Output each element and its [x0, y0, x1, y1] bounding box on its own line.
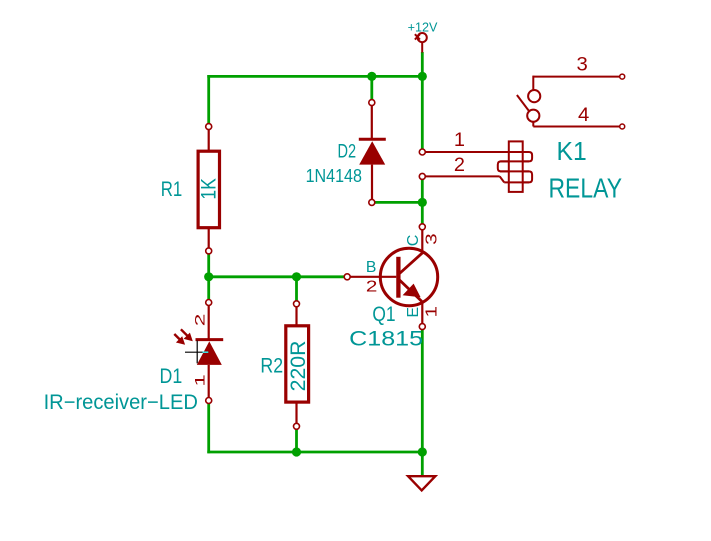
svg-text:1: 1: [454, 130, 465, 151]
svg-text:B: B: [366, 259, 377, 276]
junction bottom ground: [418, 447, 427, 456]
wire +12V vertical: [421, 52, 424, 149]
wire R2 top: [295, 277, 298, 301]
svg-text:1K: 1K: [197, 178, 220, 200]
pin end circle 3: [620, 74, 625, 79]
junction at +12V: [418, 72, 427, 81]
anchor cross: [185, 351, 208, 353]
wire mid horizontal base rail: [209, 275, 345, 278]
coil rail 2: [500, 160, 529, 162]
wire to ground: [421, 452, 424, 476]
junction D2-collector: [418, 198, 427, 207]
diode D2: [359, 100, 386, 206]
pin R2 top: [295, 304, 297, 326]
anode triangle: [197, 341, 222, 365]
pin D1 top: [208, 303, 210, 340]
svg-text:4: 4: [578, 105, 590, 126]
svg-text:1: 1: [424, 306, 441, 318]
pin R2 bottom: [295, 402, 297, 426]
svg-text:C: C: [405, 235, 422, 247]
svg-text:2: 2: [366, 279, 378, 296]
wire D2 top: [370, 76, 373, 99]
body circle: [380, 248, 437, 305]
svg-text:C1815: C1815: [349, 328, 423, 351]
pin D2 top: [371, 103, 373, 140]
contact circle lower: [527, 110, 539, 122]
junction at D2 top: [367, 72, 376, 81]
wire mid rail to D1: [207, 277, 210, 300]
coil rail 1 / pin 1 wire: [425, 151, 529, 153]
relay K1 coil: [425, 141, 532, 192]
wire bottom horizontal rail: [207, 451, 422, 454]
resistor R1: [198, 151, 219, 228]
emitter pin vertical: [421, 301, 423, 326]
IR arrow lower: [174, 334, 181, 341]
coil bump right top: [523, 152, 532, 161]
svg-text:R1: R1: [161, 178, 183, 201]
base pin: [347, 276, 396, 278]
wire D1 bottom to bottom rail: [207, 404, 210, 454]
relay contacts: [517, 76, 620, 127]
wire top horizontal: [207, 75, 422, 78]
svg-text:D1: D1: [160, 365, 183, 388]
resistor R2: [286, 326, 309, 402]
svg-text:D2: D2: [338, 142, 357, 163]
svg-text:2: 2: [454, 155, 465, 176]
pin 3 wire: [533, 76, 620, 78]
pin D2 bottom: [371, 165, 373, 203]
svg-text:E: E: [405, 307, 422, 318]
pin circle coil 2: [419, 173, 425, 179]
coil bump left: [498, 161, 509, 171]
diode D1 IR receiver: [174, 300, 223, 404]
junction mid-left: [204, 272, 213, 281]
svg-text:K1: K1: [557, 136, 587, 166]
lever: [517, 95, 529, 111]
transistor Q1: [344, 224, 440, 330]
svg-text:2: 2: [192, 313, 208, 326]
cathode bar: [196, 338, 224, 341]
coil rail 3: [500, 170, 529, 172]
svg-text:1: 1: [192, 374, 208, 387]
junction mid R2: [292, 272, 301, 281]
emitter diagonal: [400, 280, 422, 302]
base bar: [396, 257, 400, 298]
collector diagonal: [400, 253, 423, 274]
svg-text:3: 3: [424, 233, 441, 245]
svg-text:R2: R2: [260, 355, 283, 378]
IR arrow upper: [181, 329, 189, 337]
pin 4 wire: [532, 121, 534, 126]
emitter arrow: [403, 284, 421, 298]
wire relay pin2 to junction: [421, 180, 424, 224]
pin end circle 4: [620, 124, 625, 129]
coil rail 4: [504, 181, 529, 183]
coil body rect: [509, 141, 523, 192]
power symbol +12V: [415, 33, 427, 53]
svg-text:1N4148: 1N4148: [306, 166, 362, 186]
svg-text:RELAY: RELAY: [549, 172, 623, 203]
pin D1 bottom: [208, 365, 210, 401]
pin R1 top: [208, 127, 210, 152]
anode triangle: [359, 141, 385, 164]
junction bottom R2: [292, 447, 301, 456]
ground: [408, 476, 435, 490]
wire R1 bottom to mid rail: [207, 254, 210, 277]
collector pin vertical: [421, 227, 423, 254]
pin R1 bottom: [208, 228, 210, 251]
svg-text:+12V: +12V: [408, 19, 438, 34]
svg-text:Q1: Q1: [372, 303, 395, 326]
contact circle common: [528, 90, 540, 102]
wire left vertical upper: [207, 75, 210, 124]
svg-text:3: 3: [577, 54, 588, 75]
svg-text:IR−receiver−LED: IR−receiver−LED: [44, 391, 198, 414]
pin circle coil 1: [419, 149, 425, 155]
coil bump right bottom: [523, 171, 532, 182]
wire emitter to bottom rail: [421, 330, 424, 452]
cathode bar: [359, 138, 386, 141]
pin 2 wire: [425, 175, 499, 177]
wire D2 bottom horizontal: [375, 201, 423, 204]
svg-text:220R: 220R: [287, 341, 310, 392]
wire R2 bottom: [295, 429, 298, 452]
